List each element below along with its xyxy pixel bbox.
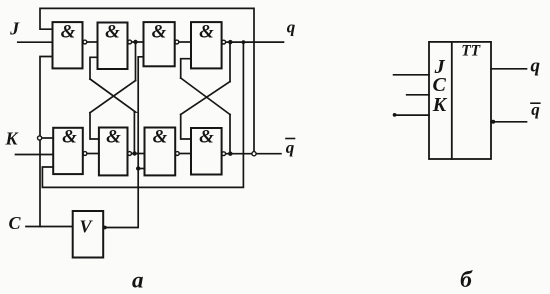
svg-text:&: & bbox=[105, 21, 120, 42]
AND gate D1 bbox=[53, 22, 83, 68]
svg-text:q: q bbox=[531, 55, 541, 76]
AND gate D7 bbox=[145, 128, 176, 176]
svg-text:K: K bbox=[432, 94, 448, 116]
dot at q-bar output of symbol bbox=[491, 120, 495, 124]
AND gate D4 bbox=[191, 22, 222, 68]
AND gate D5 bbox=[53, 128, 83, 174]
svg-text:a: a bbox=[132, 268, 144, 293]
svg-text:q: q bbox=[287, 18, 296, 37]
svg-text:&: & bbox=[199, 127, 214, 148]
wire: clock tap to gate D5 top input bbox=[42, 137, 54, 139]
wire: inverted clock tap to gate D7 lower input bbox=[138, 168, 144, 170]
wire: q-bar output pin of symbol bbox=[491, 121, 527, 123]
junction dot at gate D2 output bbox=[133, 40, 137, 44]
wire: gate D5 output to gate D6 bbox=[88, 153, 99, 155]
wire: X down to gate D6 first input bbox=[90, 113, 99, 139]
wire: J input pin of symbol bbox=[394, 74, 429, 76]
flip-flop symbol box bbox=[429, 42, 491, 159]
wire: q output line bbox=[226, 41, 284, 43]
dot at left end of K pin bbox=[393, 113, 397, 117]
svg-text:&: & bbox=[153, 127, 168, 148]
overbar of q-bar label bbox=[286, 138, 295, 140]
wire: gate D6 output to gate D7 bbox=[132, 153, 145, 155]
svg-text:&: & bbox=[152, 21, 167, 42]
wire: gate D3 output to gate D4 bbox=[179, 41, 191, 43]
svg-text:TT: TT bbox=[461, 42, 480, 59]
wire: K input pin of symbol bbox=[396, 114, 429, 116]
wire: C input line to V block bbox=[26, 226, 73, 228]
wire: top q-bar feedback line to gate D1 input bbox=[40, 8, 254, 151]
svg-text:C: C bbox=[8, 213, 21, 233]
wire: X down to gate D8 output junction bbox=[229, 115, 231, 154]
wire: master latch cross-coupling X diagonals bbox=[90, 79, 136, 113]
inversion bubble gate D4 output bbox=[222, 40, 226, 44]
junction dot on inverted-clock vertical at gate D7 tap bbox=[136, 166, 140, 170]
wire: X down to gate D8 first input bbox=[181, 115, 191, 140]
wire: X down to gate D6 output junction bbox=[133, 112, 135, 154]
divider of flip-flop symbol bbox=[451, 42, 453, 159]
AND gate D3 bbox=[144, 22, 175, 66]
svg-text:&: & bbox=[106, 127, 121, 148]
junction dot at gate D4 output (q node) bbox=[228, 40, 232, 44]
inversion bubble gate D5 output bbox=[83, 152, 87, 156]
wire: gate D4 output junction down to X bbox=[229, 42, 231, 82]
wire: q output pin of symbol bbox=[491, 68, 527, 70]
inversion bubble gate D7 output bbox=[175, 152, 179, 156]
wire: gate D7 output to gate D8 bbox=[179, 153, 191, 155]
svg-text:K: K bbox=[4, 128, 19, 148]
wire: C input pin of symbol bbox=[407, 94, 429, 96]
dot at V block output bbox=[103, 226, 107, 230]
wire: K input line bbox=[16, 154, 54, 156]
wire: inverted clock from V block up to gate D3 second input bbox=[103, 57, 143, 228]
svg-text:J: J bbox=[9, 18, 20, 38]
wire: gate D2 second input from master latch cross-coupling bbox=[90, 57, 98, 79]
svg-text:q: q bbox=[286, 138, 295, 157]
svg-text:&: & bbox=[61, 21, 76, 42]
wire: q feedback bottom bus from gate D5 input to q line bbox=[42, 42, 243, 187]
svg-text:&: & bbox=[199, 21, 214, 42]
overbar of q-bar output label bbox=[531, 102, 540, 104]
wire: J input line bbox=[18, 41, 53, 43]
junction dot on q line to feedback bus bbox=[242, 40, 246, 44]
inversion bubble gate D2 output bbox=[128, 40, 132, 44]
wire: gate D2 output junction down to X bbox=[135, 42, 137, 81]
AND gate D6 bbox=[99, 128, 128, 176]
wire: gate D2 output to gate D3 bbox=[132, 41, 144, 43]
hollow junction on clock vertical at gate D5 input bbox=[38, 136, 42, 140]
inversion bubble gate D3 output bbox=[175, 40, 179, 44]
inversion bubble gate D8 output bbox=[222, 152, 226, 156]
V block (clock inverter) bbox=[73, 211, 104, 258]
wire: slave latch cross-coupling X diagonals bbox=[181, 78, 230, 115]
svg-text:V: V bbox=[79, 217, 93, 237]
inversion bubble gate D6 output bbox=[128, 152, 132, 156]
svg-text:&: & bbox=[62, 127, 77, 148]
AND gate D2 bbox=[98, 23, 128, 70]
wire: gate D4 second input from slave latch cross-coupling bbox=[181, 59, 191, 78]
svg-text:б: б bbox=[460, 267, 473, 293]
junction dot at gate D6 output bbox=[132, 151, 136, 155]
hollow junction of q-bar feedback on q-bar line bbox=[252, 152, 256, 156]
junction dot at gate D8 output (q-bar node) bbox=[228, 152, 232, 156]
wire: gate D1 output to gate D2 bbox=[87, 41, 97, 43]
AND gate D8 bbox=[191, 128, 222, 175]
wire: q-bar output line bbox=[226, 153, 281, 155]
inversion bubble gate D1 output bbox=[83, 40, 87, 44]
wire: clock vertical from C line to gate D1 lower input bbox=[40, 57, 53, 227]
